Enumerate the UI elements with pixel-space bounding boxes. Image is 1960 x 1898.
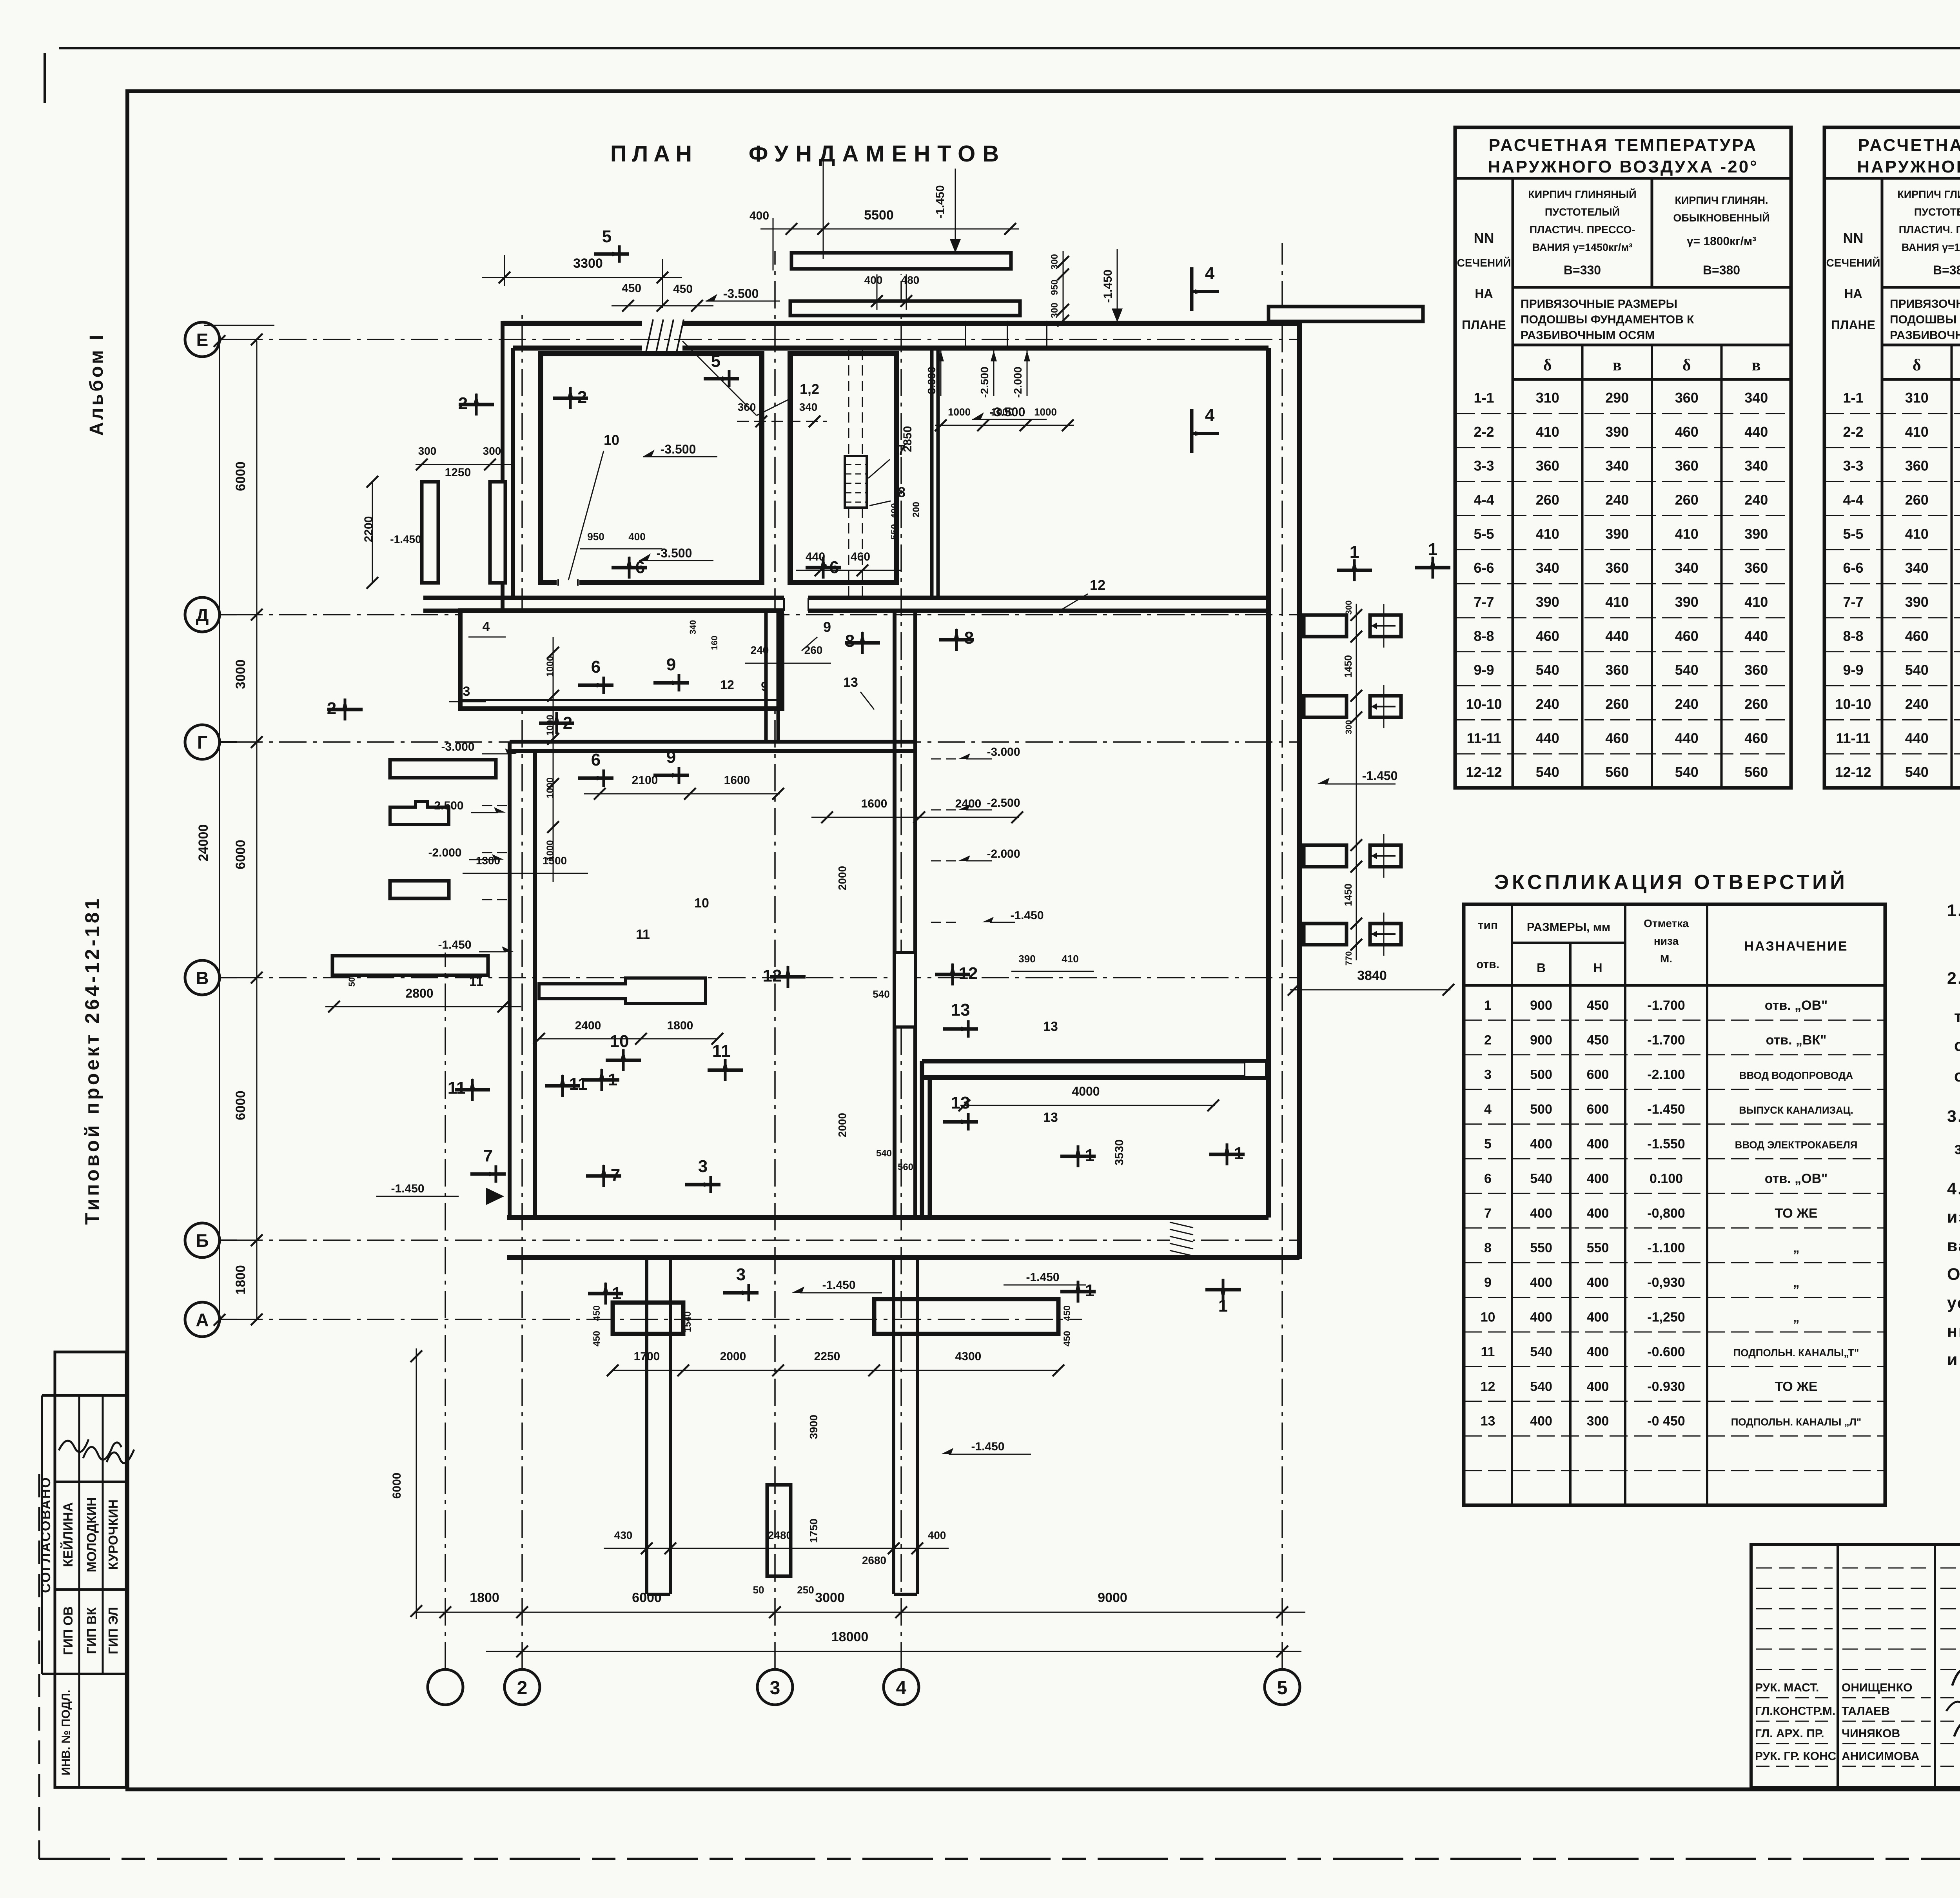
svg-text:ОБЫКНОВЕННЫЙ: ОБЫКНОВЕННЫЙ bbox=[1673, 212, 1769, 224]
svg-text:260: 260 bbox=[1536, 492, 1559, 508]
svg-text:-3.000: -3.000 bbox=[926, 367, 938, 397]
svg-text:5: 5 bbox=[1277, 1678, 1288, 1698]
svg-text:290: 290 bbox=[1605, 390, 1629, 406]
svg-text:440: 440 bbox=[1744, 628, 1768, 644]
svg-text:ПОДПОЛЬН. КАНАЛЫ „Л": ПОДПОЛЬН. КАНАЛЫ „Л" bbox=[1731, 1416, 1862, 1428]
svg-text:1450: 1450 bbox=[1342, 884, 1354, 906]
svg-text:3. Основные примечания к: 3. Основные примечания к фундаментам см. bbox=[1947, 1107, 1960, 1126]
svg-text:ПУСТОТЕЛЫЙ: ПУСТОТЕЛЫЙ bbox=[1914, 206, 1960, 218]
svg-text:ОНИЩЕНКО: ОНИЩЕНКО bbox=[1842, 1681, 1912, 1694]
svg-text:950: 950 bbox=[1049, 279, 1060, 295]
svg-text:11: 11 bbox=[1481, 1345, 1495, 1359]
svg-text:2: 2 bbox=[327, 699, 336, 718]
svg-text:6000: 6000 bbox=[233, 461, 248, 491]
svg-text:отв. „ОВ": отв. „ОВ" bbox=[1765, 998, 1828, 1013]
svg-text:390: 390 bbox=[1675, 594, 1699, 610]
svg-text:таблицу нагрузок и сечения: таблицу нагрузок и сечения фундаментов, … bbox=[1954, 1007, 1960, 1026]
svg-text:ИНВ. № ПОДЛ.: ИНВ. № ПОДЛ. bbox=[60, 1690, 73, 1776]
svg-text:4: 4 bbox=[483, 619, 490, 634]
svg-text:9: 9 bbox=[666, 748, 676, 767]
svg-text:5500: 5500 bbox=[864, 208, 894, 223]
svg-text:2000: 2000 bbox=[836, 1113, 848, 1137]
svg-text:6: 6 bbox=[1484, 1171, 1492, 1186]
svg-text:СЕЧЕНИЙ: СЕЧЕНИЙ bbox=[1826, 256, 1880, 269]
svg-text:450: 450 bbox=[1062, 1331, 1073, 1346]
svg-text:340: 340 bbox=[1536, 560, 1559, 576]
svg-text:560: 560 bbox=[898, 1162, 913, 1172]
svg-text:3: 3 bbox=[463, 684, 470, 699]
svg-text:ЭКСПЛИКАЦИЯ ОТВЕРСТИЙ: ЭКСПЛИКАЦИЯ ОТВЕРСТИЙ bbox=[1494, 871, 1848, 894]
svg-text:400: 400 bbox=[1587, 1206, 1609, 1221]
svg-text:300: 300 bbox=[1344, 601, 1354, 615]
svg-text:-1.450: -1.450 bbox=[1026, 1271, 1059, 1284]
svg-text:3: 3 bbox=[770, 1678, 780, 1698]
svg-text:-2.500: -2.500 bbox=[430, 799, 463, 812]
svg-text:δ: δ bbox=[1543, 356, 1552, 374]
svg-text:3000: 3000 bbox=[815, 1590, 845, 1605]
svg-text:КИРПИЧ ГЛИНЯНЫЙ: КИРПИЧ ГЛИНЯНЫЙ bbox=[1528, 188, 1636, 200]
svg-text:4-4: 4-4 bbox=[1474, 492, 1494, 508]
svg-text:390: 390 bbox=[1536, 594, 1559, 610]
svg-text:СОГЛАСОВАНО: СОГЛАСОВАНО bbox=[38, 1476, 53, 1593]
svg-text:NN: NN bbox=[1474, 230, 1494, 246]
svg-text:310: 310 bbox=[1905, 390, 1929, 406]
svg-text:9000: 9000 bbox=[1098, 1590, 1127, 1605]
svg-text:ВЫПУСК КАНАЛИЗАЦ.: ВЫПУСК КАНАЛИЗАЦ. bbox=[1739, 1104, 1853, 1116]
svg-text:6-6: 6-6 bbox=[1474, 560, 1494, 576]
svg-text:ПРИВЯЗОЧНЫЕ РАЗМЕРЫ: ПРИВЯЗОЧНЫЕ РАЗМЕРЫ bbox=[1890, 298, 1960, 310]
svg-text:-2.000: -2.000 bbox=[1012, 367, 1024, 397]
svg-text:-1.450: -1.450 bbox=[1102, 269, 1114, 303]
svg-text:340: 340 bbox=[1905, 560, 1929, 576]
svg-text:2: 2 bbox=[577, 388, 587, 407]
svg-text:550: 550 bbox=[1587, 1241, 1609, 1256]
svg-text:240: 240 bbox=[1675, 696, 1699, 712]
svg-text:300: 300 bbox=[1049, 254, 1060, 270]
svg-text:1. Данный лист см. совмес: 1. Данный лист см. совместно с листами bbox=[1947, 901, 1960, 920]
svg-text:12: 12 bbox=[1481, 1379, 1495, 1394]
svg-text:ТАЛАЕВ: ТАЛАЕВ bbox=[1842, 1705, 1890, 1718]
svg-text:260: 260 bbox=[804, 644, 823, 656]
svg-text:ГЛ.КОНСТР.М.: ГЛ.КОНСТР.М. bbox=[1755, 1705, 1835, 1718]
svg-text:1: 1 bbox=[1234, 1144, 1243, 1163]
svg-text:3300: 3300 bbox=[573, 256, 603, 271]
svg-text:А: А bbox=[196, 1310, 209, 1330]
svg-text:-0.600: -0.600 bbox=[1647, 1345, 1685, 1359]
svg-text:9: 9 bbox=[823, 619, 831, 635]
svg-text:-3.500: -3.500 bbox=[657, 546, 692, 560]
svg-text:-1.450: -1.450 bbox=[934, 185, 947, 218]
svg-text:АНИСИМОВА: АНИСИМОВА bbox=[1842, 1750, 1919, 1763]
svg-text:4000: 4000 bbox=[1072, 1084, 1100, 1098]
svg-text:1600: 1600 bbox=[724, 774, 750, 787]
svg-text:3: 3 bbox=[698, 1157, 708, 1176]
svg-text:3840: 3840 bbox=[1357, 968, 1387, 983]
svg-text:10-10: 10-10 bbox=[1466, 696, 1502, 712]
svg-text:540: 540 bbox=[876, 1148, 892, 1159]
svg-text:7: 7 bbox=[898, 442, 906, 458]
svg-text:400: 400 bbox=[1587, 1310, 1609, 1325]
svg-text:5-5: 5-5 bbox=[1474, 526, 1494, 542]
svg-text:440: 440 bbox=[1605, 628, 1629, 644]
svg-text:360: 360 bbox=[1605, 560, 1629, 576]
svg-text:260: 260 bbox=[1905, 492, 1929, 508]
svg-text:10: 10 bbox=[1481, 1310, 1495, 1325]
svg-text:10-10: 10-10 bbox=[1835, 696, 1871, 712]
svg-text:ПОДОШВЫ ФУНДАМЕНТОВ К: ПОДОШВЫ ФУНДАМЕНТОВ К bbox=[1890, 313, 1960, 326]
svg-text:360: 360 bbox=[1744, 560, 1768, 576]
svg-text:9: 9 bbox=[666, 655, 676, 674]
svg-text:1000: 1000 bbox=[991, 406, 1014, 418]
svg-text:460: 460 bbox=[851, 550, 870, 563]
svg-text:низа: низа bbox=[1654, 935, 1679, 947]
svg-text:δ: δ bbox=[1682, 356, 1691, 374]
svg-text:Б: Б bbox=[196, 1230, 209, 1251]
svg-text:-2.500: -2.500 bbox=[978, 367, 991, 397]
svg-text:340: 340 bbox=[799, 401, 818, 413]
svg-text:300: 300 bbox=[1587, 1414, 1609, 1429]
svg-text:6: 6 bbox=[829, 558, 839, 577]
svg-text:РАСЧЕТНАЯ ТЕМПЕРАТУРА: РАСЧЕТНАЯ ТЕМПЕРАТУРА bbox=[1858, 136, 1960, 155]
svg-text:950: 950 bbox=[587, 531, 604, 543]
svg-text:360: 360 bbox=[1536, 458, 1559, 474]
svg-text:НАЗНАЧЕНИЕ: НАЗНАЧЕНИЕ bbox=[1744, 939, 1848, 954]
svg-text:4. Обратную засыпку грунта: 4. Обратную засыпку грунта за стены подв… bbox=[1947, 1179, 1960, 1198]
svg-text:460: 460 bbox=[1675, 628, 1699, 644]
svg-text:3: 3 bbox=[736, 1265, 746, 1284]
svg-text:1-1: 1-1 bbox=[1843, 390, 1863, 406]
svg-text:13: 13 bbox=[1043, 1110, 1058, 1125]
svg-text:10: 10 bbox=[604, 432, 619, 448]
svg-text:2200: 2200 bbox=[362, 516, 375, 543]
svg-text:11-11: 11-11 bbox=[1836, 730, 1870, 746]
svg-text:260: 260 bbox=[1675, 492, 1699, 508]
svg-text:8: 8 bbox=[898, 484, 906, 500]
svg-text:4: 4 bbox=[1205, 406, 1215, 425]
svg-text:240: 240 bbox=[1536, 696, 1559, 712]
svg-text:400: 400 bbox=[928, 1529, 946, 1541]
svg-text:строительства. Остальные вари: строительства. Остальные варианты вычерк… bbox=[1954, 1067, 1960, 1085]
svg-text:1750: 1750 bbox=[808, 1519, 820, 1543]
svg-text:460: 460 bbox=[1744, 730, 1768, 746]
svg-text:400: 400 bbox=[1587, 1379, 1609, 1394]
svg-text:изводить слоями 20-25 см с: изводить слоями 20-25 см с тщательным тр… bbox=[1947, 1208, 1960, 1227]
svg-text:410: 410 bbox=[1905, 526, 1929, 542]
svg-text:γ= 1800кг/м³: γ= 1800кг/м³ bbox=[1687, 235, 1756, 248]
svg-text:410: 410 bbox=[1536, 526, 1559, 542]
svg-text:ПЛАСТИЧ. ПРЕССО-: ПЛАСТИЧ. ПРЕССО- bbox=[1899, 224, 1960, 236]
svg-text:ПЛАСТИЧ. ПРЕССО-: ПЛАСТИЧ. ПРЕССО- bbox=[1530, 224, 1635, 236]
svg-text:-1.700: -1.700 bbox=[1647, 1032, 1685, 1047]
svg-text:410: 410 bbox=[1062, 953, 1078, 965]
svg-text:50: 50 bbox=[347, 977, 357, 987]
svg-text:2: 2 bbox=[563, 713, 572, 733]
svg-text:ГИП ЭЛ: ГИП ЭЛ bbox=[106, 1607, 120, 1655]
svg-text:400: 400 bbox=[628, 531, 645, 543]
svg-text:1800: 1800 bbox=[667, 1019, 693, 1032]
svg-text:13: 13 bbox=[951, 1000, 970, 1020]
svg-text:300: 300 bbox=[418, 445, 437, 457]
svg-text:550, 400: 550, 400 bbox=[889, 503, 900, 539]
svg-text:РАЗМЕРЫ, мм: РАЗМЕРЫ, мм bbox=[1527, 921, 1610, 934]
svg-text:540: 540 bbox=[1905, 662, 1929, 678]
svg-text:-1.450: -1.450 bbox=[971, 1440, 1004, 1453]
svg-text:10: 10 bbox=[610, 1032, 629, 1051]
svg-text:1700: 1700 bbox=[634, 1350, 660, 1363]
svg-text:1250: 1250 bbox=[445, 466, 471, 479]
svg-text:250: 250 bbox=[797, 1584, 814, 1596]
svg-text:410: 410 bbox=[1536, 424, 1559, 440]
svg-text:390: 390 bbox=[1905, 594, 1929, 610]
svg-text:11: 11 bbox=[569, 1074, 588, 1094]
svg-text:СЕЧЕНИЙ: СЕЧЕНИЙ bbox=[1457, 256, 1511, 269]
svg-text:4300: 4300 bbox=[955, 1350, 982, 1363]
svg-text:440: 440 bbox=[1905, 730, 1929, 746]
svg-text:тип: тип bbox=[1478, 919, 1498, 932]
svg-text:устройства перекрытия над: устройства перекрытия над подвалом и воз… bbox=[1947, 1294, 1960, 1312]
svg-text:Г: Г bbox=[197, 732, 207, 753]
svg-text:440: 440 bbox=[1744, 424, 1768, 440]
svg-text:1000: 1000 bbox=[1034, 406, 1057, 418]
svg-text:отв. „ВК": отв. „ВК" bbox=[1766, 1032, 1827, 1047]
svg-text:Д: Д bbox=[196, 605, 209, 625]
svg-text:450: 450 bbox=[673, 283, 693, 296]
svg-text:4: 4 bbox=[1205, 264, 1215, 283]
svg-text:400: 400 bbox=[1530, 1310, 1552, 1325]
svg-text:310: 310 bbox=[1536, 390, 1559, 406]
svg-text:1: 1 bbox=[1428, 540, 1437, 559]
svg-text:160: 160 bbox=[710, 636, 719, 650]
svg-text:6000: 6000 bbox=[233, 1091, 248, 1120]
svg-text:ПОДОШВЫ ФУНДАМЕНТОВ К: ПОДОШВЫ ФУНДАМЕНТОВ К bbox=[1521, 313, 1694, 326]
svg-text:-3.000: -3.000 bbox=[441, 740, 474, 753]
svg-text:NN: NN bbox=[1843, 230, 1864, 246]
svg-text:ФУНДАМЕНТОВ: ФУНДАМЕНТОВ bbox=[749, 141, 1006, 167]
svg-text:540: 540 bbox=[1530, 1379, 1552, 1394]
svg-text:МОЛОДКИН: МОЛОДКИН bbox=[84, 1497, 99, 1572]
svg-text:450: 450 bbox=[622, 282, 641, 295]
svg-text:δ: δ bbox=[1913, 356, 1921, 374]
svg-text:540: 540 bbox=[873, 988, 889, 1000]
svg-text:6: 6 bbox=[591, 657, 601, 677]
svg-text:900: 900 bbox=[1530, 1032, 1552, 1047]
svg-text:В: В bbox=[1537, 961, 1546, 975]
svg-text:2480: 2480 bbox=[768, 1529, 792, 1541]
svg-text:450: 450 bbox=[1587, 998, 1609, 1013]
svg-text:1600: 1600 bbox=[861, 797, 887, 810]
svg-text:6-6: 6-6 bbox=[1843, 560, 1863, 576]
svg-text:540: 540 bbox=[1536, 662, 1559, 678]
svg-text:560: 560 bbox=[1605, 764, 1629, 780]
svg-text:-1.450: -1.450 bbox=[438, 938, 471, 951]
svg-text:6: 6 bbox=[635, 558, 645, 577]
svg-text:-3.000: -3.000 bbox=[987, 746, 1020, 758]
svg-text:13: 13 bbox=[1043, 1019, 1058, 1034]
svg-text:240: 240 bbox=[1605, 492, 1629, 508]
svg-text:340: 340 bbox=[1675, 560, 1699, 576]
svg-text:390: 390 bbox=[1744, 526, 1768, 542]
svg-text:360: 360 bbox=[1744, 662, 1768, 678]
svg-text:500: 500 bbox=[1530, 1067, 1552, 1082]
svg-text:400: 400 bbox=[1530, 1275, 1552, 1290]
svg-text:ВВОД ЭЛЕКТРОКАБЕЛЯ: ВВОД ЭЛЕКТРОКАБЕЛЯ bbox=[1735, 1139, 1858, 1150]
svg-text:3000: 3000 bbox=[233, 659, 248, 689]
svg-text:5: 5 bbox=[602, 227, 612, 246]
svg-text:400: 400 bbox=[1587, 1345, 1609, 1359]
svg-text:1800: 1800 bbox=[470, 1590, 499, 1605]
svg-text:В=380: В=380 bbox=[1703, 263, 1740, 277]
svg-text:240: 240 bbox=[1905, 696, 1929, 712]
svg-text:Н: Н bbox=[1593, 961, 1602, 975]
svg-text:260: 260 bbox=[1744, 696, 1768, 712]
svg-text:50: 50 bbox=[753, 1584, 764, 1596]
svg-text:ЧИНЯКОВ: ЧИНЯКОВ bbox=[1842, 1727, 1900, 1740]
svg-text:-1.550: -1.550 bbox=[1647, 1136, 1685, 1151]
svg-text:В=380: В=380 bbox=[1933, 263, 1960, 277]
svg-text:400: 400 bbox=[1587, 1136, 1609, 1151]
svg-text:4-4: 4-4 bbox=[1843, 492, 1863, 508]
svg-text:М.: М. bbox=[1660, 953, 1672, 965]
svg-text:НАРУЖНОГО ВОЗДУХА -30°: НАРУЖНОГО ВОЗДУХА -30° bbox=[1857, 157, 1960, 176]
svg-text:540: 540 bbox=[1536, 764, 1559, 780]
svg-text:450: 450 bbox=[1062, 1305, 1073, 1321]
svg-text:11: 11 bbox=[636, 927, 650, 942]
svg-text:460: 460 bbox=[1605, 730, 1629, 746]
svg-text:в: в bbox=[1613, 356, 1622, 374]
svg-text:9: 9 bbox=[761, 679, 768, 693]
svg-text:3: 3 bbox=[1484, 1067, 1492, 1082]
svg-text:5: 5 bbox=[711, 352, 720, 371]
svg-text:440: 440 bbox=[1536, 730, 1559, 746]
svg-text:ПРИВЯЗОЧНЫЕ РАЗМЕРЫ: ПРИВЯЗОЧНЫЕ РАЗМЕРЫ bbox=[1521, 298, 1677, 310]
svg-text:ПЛАНЕ: ПЛАНЕ bbox=[1831, 318, 1875, 332]
svg-text:340: 340 bbox=[688, 620, 698, 635]
svg-text:12: 12 bbox=[1090, 577, 1105, 593]
svg-text:18000: 18000 bbox=[831, 1629, 869, 1644]
svg-text:540: 540 bbox=[1530, 1171, 1552, 1186]
svg-text:6000: 6000 bbox=[390, 1473, 403, 1499]
svg-text:6: 6 bbox=[591, 750, 601, 769]
svg-text:-3.500: -3.500 bbox=[723, 287, 759, 301]
svg-text:3530: 3530 bbox=[1113, 1140, 1126, 1166]
svg-text:1: 1 bbox=[1218, 1296, 1228, 1316]
svg-text:4: 4 bbox=[896, 1678, 907, 1698]
svg-text:340: 340 bbox=[1744, 390, 1768, 406]
svg-text:-2.000: -2.000 bbox=[987, 847, 1020, 860]
svg-text:410: 410 bbox=[1675, 526, 1699, 542]
svg-text:540: 540 bbox=[1675, 764, 1699, 780]
svg-text:450: 450 bbox=[592, 1305, 602, 1321]
svg-text:300: 300 bbox=[1344, 720, 1354, 735]
svg-text:ТО ЖЕ: ТО ЖЕ bbox=[1775, 1206, 1817, 1221]
svg-text:9: 9 bbox=[1484, 1275, 1492, 1290]
svg-text:460: 460 bbox=[1536, 628, 1559, 644]
svg-text:РАЗБИВОЧНЫМ ОСЯМ: РАЗБИВОЧНЫМ ОСЯМ bbox=[1521, 329, 1655, 342]
svg-text:360: 360 bbox=[1675, 390, 1699, 406]
svg-text:340: 340 bbox=[1744, 458, 1768, 474]
svg-text:отв. „ОВ": отв. „ОВ" bbox=[1765, 1171, 1828, 1186]
svg-text:3900: 3900 bbox=[808, 1415, 820, 1439]
svg-text:12: 12 bbox=[959, 964, 978, 983]
svg-text:РАЗБИВОЧНЫМ ОСЯМ: РАЗБИВОЧНЫМ ОСЯМ bbox=[1890, 329, 1960, 342]
svg-text:2680: 2680 bbox=[862, 1554, 886, 1566]
svg-text:2-2: 2-2 bbox=[1843, 424, 1863, 440]
svg-text:11: 11 bbox=[448, 1078, 466, 1098]
svg-text:ванием.: ванием. bbox=[1947, 1236, 1960, 1255]
svg-text:560: 560 bbox=[1744, 764, 1768, 780]
svg-text:240: 240 bbox=[751, 644, 769, 656]
svg-text:-1.450: -1.450 bbox=[1647, 1102, 1685, 1117]
svg-text:8: 8 bbox=[845, 631, 855, 651]
svg-text:3-3: 3-3 bbox=[1843, 458, 1863, 474]
svg-text:Типовой проект 264-12-181: Типовой проект 264-12-181 bbox=[81, 896, 103, 1225]
svg-text:540: 540 bbox=[1905, 764, 1929, 780]
svg-text:5: 5 bbox=[1484, 1136, 1492, 1151]
svg-text:540: 540 bbox=[1530, 1345, 1552, 1359]
svg-text:12: 12 bbox=[720, 678, 734, 692]
svg-text:-0,800: -0,800 bbox=[1647, 1206, 1685, 1221]
svg-text:410: 410 bbox=[1744, 594, 1768, 610]
svg-text:4: 4 bbox=[1484, 1102, 1492, 1117]
svg-text:1800: 1800 bbox=[233, 1265, 248, 1295]
svg-text:ПЛАНЕ: ПЛАНЕ bbox=[1462, 318, 1506, 332]
svg-text:2-2: 2-2 bbox=[1474, 424, 1494, 440]
svg-text:2. При привязке проекта о: 2. При привязке проекта оставить только … bbox=[1947, 969, 1960, 988]
svg-text:КЕЙЛИНА: КЕЙЛИНА bbox=[60, 1502, 76, 1567]
svg-text:460: 460 bbox=[1905, 628, 1929, 644]
svg-text:430: 430 bbox=[614, 1529, 633, 1541]
svg-text:500: 500 bbox=[1530, 1102, 1552, 1117]
svg-text:РАСЧЕТНАЯ ТЕМПЕРАТУРА: РАСЧЕТНАЯ ТЕМПЕРАТУРА bbox=[1489, 136, 1758, 155]
svg-text:2000: 2000 bbox=[836, 866, 848, 890]
svg-text:7-7: 7-7 bbox=[1843, 594, 1863, 610]
svg-text:24000: 24000 bbox=[196, 824, 211, 862]
svg-text:3-3: 3-3 bbox=[1474, 458, 1494, 474]
svg-text:6000: 6000 bbox=[233, 840, 248, 869]
svg-text:-1.450: -1.450 bbox=[391, 1182, 424, 1195]
svg-text:КУРОЧКИН: КУРОЧКИН bbox=[106, 1499, 120, 1570]
svg-text:390: 390 bbox=[1605, 526, 1629, 542]
svg-text:5-5: 5-5 bbox=[1843, 526, 1863, 542]
svg-text:7: 7 bbox=[483, 1146, 493, 1165]
svg-text:НАРУЖНОГО ВОЗДУХА -20°: НАРУЖНОГО ВОЗДУХА -20° bbox=[1488, 157, 1759, 176]
svg-text:отв.: отв. bbox=[1476, 958, 1499, 971]
svg-text:11: 11 bbox=[712, 1042, 731, 1061]
svg-text:300: 300 bbox=[483, 445, 501, 457]
svg-text:2800: 2800 bbox=[405, 986, 433, 1000]
svg-text:-0.930: -0.930 bbox=[1647, 1379, 1685, 1394]
svg-text:ГЛ. АРХ. ПР.: ГЛ. АРХ. ПР. bbox=[1755, 1727, 1824, 1740]
svg-text:заглавный лист стр. 5 и 6.: заглавный лист стр. 5 и 6. bbox=[1954, 1139, 1960, 1158]
svg-text:-1.450: -1.450 bbox=[1362, 769, 1398, 783]
svg-text:ТО ЖЕ: ТО ЖЕ bbox=[1775, 1379, 1817, 1394]
svg-text:2250: 2250 bbox=[814, 1350, 840, 1363]
svg-text:„: „ bbox=[1793, 1241, 1800, 1256]
svg-text:360: 360 bbox=[1905, 458, 1929, 474]
svg-text:450: 450 bbox=[1587, 1032, 1609, 1047]
svg-text:2: 2 bbox=[458, 394, 468, 413]
svg-text:1: 1 bbox=[608, 1070, 617, 1089]
svg-text:ния стен 1 этажа: до отм.: ния стен 1 этажа: до отм. низа проема — … bbox=[1947, 1322, 1960, 1341]
svg-text:РУК. МАСТ.: РУК. МАСТ. bbox=[1755, 1681, 1819, 1694]
svg-text:400: 400 bbox=[750, 209, 769, 222]
svg-text:-2.500: -2.500 bbox=[987, 797, 1020, 809]
svg-text:7: 7 bbox=[611, 1165, 620, 1185]
svg-text:Альбом I: Альбом I bbox=[86, 332, 107, 435]
svg-text:1: 1 bbox=[1085, 1146, 1094, 1165]
svg-text:360: 360 bbox=[1675, 458, 1699, 474]
svg-text:2400: 2400 bbox=[575, 1019, 601, 1032]
